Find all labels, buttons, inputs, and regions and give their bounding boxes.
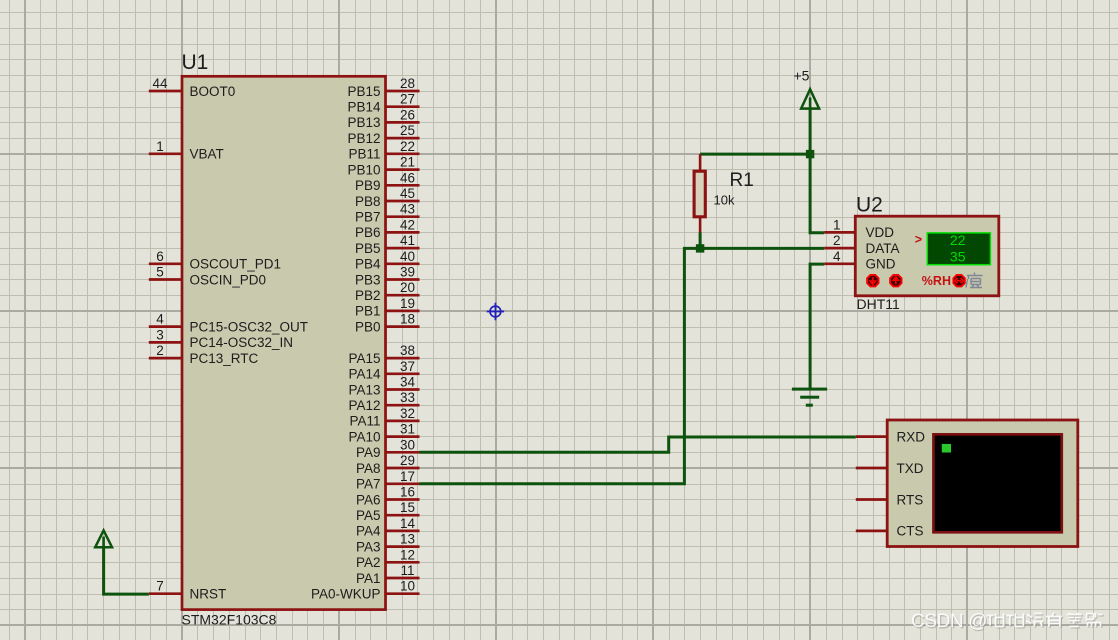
svg-text:PB12: PB12 — [347, 131, 380, 146]
svg-text:12: 12 — [400, 547, 415, 562]
svg-text:11: 11 — [400, 563, 414, 578]
svg-text:32: 32 — [400, 406, 415, 421]
R1 value label 10k — [714, 193, 735, 208]
svg-text:6: 6 — [156, 249, 164, 264]
svg-text:44: 44 — [152, 76, 168, 91]
U1 pin 4 (PC15-OSC32_OUT) — [149, 312, 308, 335]
U2 pin 1 (VDD) — [824, 217, 894, 240]
U1 pin 13 (PA3) — [356, 532, 420, 555]
svg-text:14: 14 — [400, 516, 416, 531]
svg-text:35: 35 — [950, 248, 966, 264]
svg-text:4: 4 — [833, 249, 841, 264]
power symbol at NRST — [95, 530, 112, 547]
svg-text:31: 31 — [400, 422, 415, 437]
svg-text:10: 10 — [400, 579, 415, 594]
U1 pin 28 (PB15) — [347, 76, 419, 99]
svg-text:OSCIN_PD0: OSCIN_PD0 — [190, 272, 267, 287]
svg-text:CTS: CTS — [897, 524, 924, 539]
svg-text:PA0-WKUP: PA0-WKUP — [311, 587, 381, 602]
svg-text:GND: GND — [866, 257, 896, 272]
U1 pin 44 (BOOT0) — [149, 76, 235, 99]
U1 pin 21 (PB10) — [347, 155, 419, 178]
terminal pin CTS — [856, 524, 924, 539]
svg-text:+5: +5 — [794, 68, 810, 84]
U1 reference designator label — [182, 51, 209, 74]
svg-text:3: 3 — [156, 327, 164, 342]
svg-text:PA3: PA3 — [356, 539, 381, 554]
svg-text:29: 29 — [400, 453, 415, 468]
svg-text:5: 5 — [156, 265, 164, 280]
svg-text:1: 1 — [156, 139, 164, 154]
U2 %RH label — [922, 274, 951, 288]
svg-text:PB15: PB15 — [347, 84, 380, 99]
+5 power arrow symbol — [801, 89, 819, 108]
svg-text:OSCOUT_PD1: OSCOUT_PD1 — [190, 257, 282, 272]
U1 pin 11 (PA1) — [356, 563, 420, 586]
svg-text:19: 19 — [400, 296, 415, 311]
U1 pin 41 (PB5) — [355, 233, 420, 256]
svg-text:PA10: PA10 — [348, 429, 380, 444]
U1 pin 15 (PA5) — [356, 500, 420, 523]
wire junction to R1 top — [700, 153, 810, 156]
svg-text:7: 7 — [156, 579, 164, 594]
svg-text:%RH: %RH — [922, 274, 951, 288]
U1 pin 39 (PB3) — [355, 265, 420, 288]
U1 pin 30 (PA9) — [356, 437, 420, 460]
svg-text:PB8: PB8 — [355, 194, 381, 209]
svg-text:DHT11: DHT11 — [857, 296, 901, 312]
svg-text:38: 38 — [400, 343, 415, 358]
svg-text:PC15-OSC32_OUT: PC15-OSC32_OUT — [190, 319, 309, 334]
svg-text:46: 46 — [400, 170, 415, 185]
U1 pin 14 (PA4) — [356, 516, 420, 539]
U1 pin 7 (NRST) — [149, 579, 226, 602]
svg-text:PA11: PA11 — [349, 414, 380, 429]
terminal pin RTS — [856, 492, 923, 507]
svg-text:PA6: PA6 — [356, 492, 381, 507]
U1 pin 20 (PB2) — [355, 280, 420, 303]
svg-text:39: 39 — [400, 265, 415, 280]
U1 pin 38 (PA15) — [348, 343, 419, 366]
svg-text:PA12: PA12 — [348, 398, 380, 413]
svg-text:PB13: PB13 — [347, 115, 380, 130]
svg-text:42: 42 — [400, 217, 415, 232]
U2 pin 2 (DATA) — [824, 233, 899, 256]
U1 pin 45 (PB8) — [355, 186, 420, 209]
svg-text:26: 26 — [400, 107, 415, 122]
svg-text:PB1: PB1 — [355, 304, 381, 319]
svg-text:PC13_RTC: PC13_RTC — [190, 351, 259, 366]
svg-text:U2: U2 — [856, 194, 883, 217]
U2 pin 4 (GND) — [824, 249, 896, 272]
svg-text:21: 21 — [400, 155, 415, 170]
wire GND pin down to ground — [810, 264, 824, 389]
svg-text:PB11: PB11 — [348, 147, 380, 162]
wire R1 bottom to DATA net — [699, 233, 702, 250]
U2 display cursor mark — [915, 233, 922, 247]
ground symbol — [792, 388, 827, 407]
U1 pin 10 (PA0-WKUP) — [311, 579, 420, 602]
U1 pin 37 (PA14) — [348, 359, 419, 382]
sensor U2 DHT11 body — [855, 216, 999, 296]
terminal screen — [933, 434, 1061, 532]
svg-text:U1: U1 — [182, 51, 209, 74]
svg-text:PA15: PA15 — [348, 351, 380, 366]
U1 pin 34 (PA13) — [348, 375, 419, 398]
svg-text:34: 34 — [400, 375, 416, 390]
U1 pin 33 (PA12) — [348, 390, 419, 413]
sheet origin marker — [487, 303, 504, 320]
junction node R1 / DATA — [696, 244, 704, 252]
IC U1 STM32F103C8 body — [182, 76, 386, 609]
svg-text:25: 25 — [400, 123, 415, 138]
U1 pin 31 (PA10) — [348, 422, 419, 445]
svg-text:RXD: RXD — [897, 429, 926, 444]
svg-text:PA2: PA2 — [356, 555, 381, 570]
svg-text:STM32F103C8: STM32F103C8 — [182, 611, 277, 627]
U2 button down — [867, 275, 878, 286]
svg-text:PB4: PB4 — [355, 257, 381, 272]
svg-text:2: 2 — [833, 233, 841, 248]
U1 pin 22 (PB11) — [348, 139, 419, 162]
svg-text:4: 4 — [156, 312, 164, 327]
svg-text:16: 16 — [400, 485, 415, 500]
svg-text:PA8: PA8 — [356, 461, 381, 476]
U1 pin 5 (OSCIN_PD0) — [149, 265, 266, 288]
wire PA7 to DHT11 DATA — [420, 248, 825, 483]
terminal pin TXD — [856, 461, 924, 476]
svg-text:PB6: PB6 — [355, 225, 381, 240]
svg-text:PA13: PA13 — [348, 382, 380, 397]
U2 button up — [890, 275, 901, 286]
U1 pin 12 (PA2) — [356, 547, 420, 570]
svg-text:17: 17 — [400, 469, 415, 484]
svg-text:40: 40 — [400, 249, 415, 264]
svg-text:PA7: PA7 — [356, 477, 381, 492]
svg-text:CSDN @: CSDN @ — [911, 611, 987, 632]
svg-text:43: 43 — [400, 202, 415, 217]
svg-text:BOOT0: BOOT0 — [190, 84, 236, 99]
U1 pin 32 (PA11) — [349, 406, 419, 429]
svg-text:PA14: PA14 — [348, 367, 381, 382]
svg-text:13: 13 — [400, 532, 415, 547]
U2 value label DHT11 — [857, 296, 901, 312]
svg-text:28: 28 — [400, 76, 415, 91]
svg-text:33: 33 — [400, 390, 415, 405]
U2 reference designator label — [856, 194, 883, 217]
svg-text:PB14: PB14 — [347, 100, 381, 115]
wire NRST to power arrow — [104, 547, 149, 594]
+5 power label — [794, 68, 810, 84]
U1 pin 26 (PB13) — [347, 107, 419, 130]
U1 pin 40 (PB4) — [355, 249, 420, 272]
svg-text:R1: R1 — [730, 170, 754, 191]
U1 pin 27 (PB14) — [347, 92, 419, 115]
svg-text:2: 2 — [156, 343, 164, 358]
svg-text:20: 20 — [400, 280, 415, 295]
svg-text:PB3: PB3 — [355, 272, 381, 287]
svg-text:37: 37 — [400, 359, 415, 374]
wire PA9 to terminal RXD — [420, 437, 856, 452]
svg-text:DATA: DATA — [866, 241, 900, 256]
junction node at +5 / R1 — [806, 150, 814, 158]
svg-text:PC14-OSC32_IN: PC14-OSC32_IN — [190, 335, 294, 350]
svg-text:30: 30 — [400, 437, 415, 452]
U2 button left-right — [953, 275, 964, 286]
svg-text:RTS: RTS — [897, 492, 924, 507]
svg-text:PB2: PB2 — [355, 288, 381, 303]
U1 pin 25 (PB12) — [347, 123, 419, 146]
resistor R1 leads — [699, 154, 702, 232]
U1 pin 42 (PB6) — [355, 217, 420, 240]
U1 pin 3 (PC14-OSC32_IN) — [149, 327, 293, 350]
resistor R1 body — [694, 171, 705, 217]
U1 pin 46 (PB9) — [355, 170, 420, 193]
svg-text:10k: 10k — [714, 193, 735, 208]
svg-text:PA9: PA9 — [356, 445, 381, 460]
U1 pin 16 (PA6) — [356, 485, 420, 508]
svg-text:PB5: PB5 — [355, 241, 381, 256]
svg-text:27: 27 — [400, 92, 415, 107]
svg-text:PB10: PB10 — [347, 162, 380, 177]
terminal cursor — [942, 444, 951, 453]
svg-text:15: 15 — [400, 500, 415, 515]
svg-text:VDD: VDD — [866, 225, 895, 240]
svg-text:TXD: TXD — [897, 461, 924, 476]
svg-text:PB9: PB9 — [355, 178, 381, 193]
svg-text:22: 22 — [400, 139, 415, 154]
svg-text:45: 45 — [400, 186, 415, 201]
U1 pin 19 (PB1) — [355, 296, 420, 319]
svg-text:NRST: NRST — [190, 587, 227, 602]
svg-text:VBAT: VBAT — [190, 147, 224, 162]
wire +5 down to VDD — [810, 109, 824, 233]
svg-text:41: 41 — [400, 233, 415, 248]
svg-text:PA4: PA4 — [356, 524, 381, 539]
U2 LCD display — [927, 232, 990, 264]
terminal pin RXD — [856, 429, 925, 444]
virtual terminal body — [887, 420, 1078, 547]
svg-text:PB7: PB7 — [355, 210, 381, 225]
svg-text:>: > — [915, 233, 922, 247]
R1 reference label — [730, 170, 754, 191]
U1 pin 6 (OSCOUT_PD1) — [149, 249, 281, 272]
U1 pin 29 (PA8) — [356, 453, 420, 476]
watermark CSDN — [911, 611, 1104, 633]
svg-text:PB0: PB0 — [355, 319, 381, 334]
svg-text:PA1: PA1 — [356, 571, 381, 586]
U1 pin 18 (PB0) — [355, 312, 420, 335]
svg-text:22: 22 — [950, 232, 966, 248]
U1 pin 43 (PB7) — [355, 202, 420, 225]
U1 value label STM32F103C8 — [182, 611, 277, 627]
svg-text:18: 18 — [400, 312, 415, 327]
U1 pin 2 (PC13_RTC) — [149, 343, 259, 366]
U1 pin 17 (PA7) — [356, 469, 420, 492]
svg-text:PA5: PA5 — [356, 508, 381, 523]
U1 pin 1 (VBAT) — [149, 139, 224, 162]
svg-text:1: 1 — [833, 217, 841, 232]
U2 grey unit glyph — [966, 273, 983, 289]
